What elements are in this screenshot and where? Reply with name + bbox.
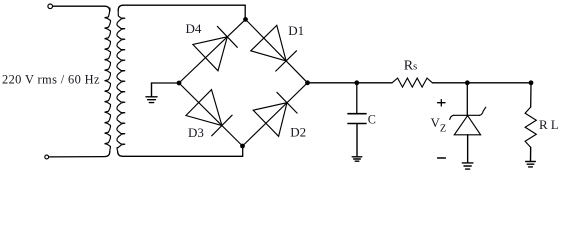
svg-text:Rs: Rs (404, 58, 417, 73)
svg-text:D4: D4 (186, 21, 202, 36)
svg-text:C: C (368, 112, 376, 126)
svg-text:D2: D2 (290, 124, 306, 139)
svg-text:R L: R L (539, 117, 559, 132)
svg-text:VZ: VZ (431, 115, 447, 135)
svg-text:D3: D3 (188, 125, 204, 140)
svg-text:220 V rms / 60 Hz: 220 V rms / 60 Hz (2, 73, 100, 87)
svg-text:D1: D1 (288, 23, 304, 38)
